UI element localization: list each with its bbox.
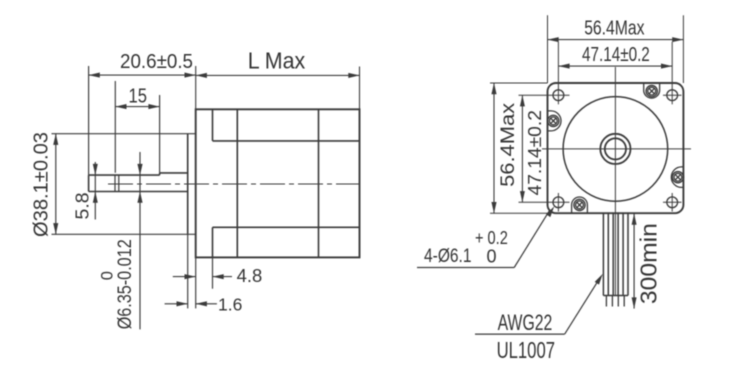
svg-text:0: 0 (99, 271, 117, 280)
svg-text:1.6: 1.6 (218, 294, 242, 314)
svg-text:UL1007: UL1007 (497, 337, 555, 363)
svg-text:56.4Max: 56.4Max (584, 17, 644, 39)
svg-text:Ø6.35-0.012: Ø6.35-0.012 (115, 239, 136, 329)
svg-text:Ø38.1±0.03: Ø38.1±0.03 (30, 132, 53, 237)
svg-text:20.6±0.5: 20.6±0.5 (120, 50, 193, 73)
svg-text:L Max: L Max (248, 47, 306, 73)
svg-text:5.8: 5.8 (72, 193, 93, 220)
svg-text:+ 0.2: + 0.2 (475, 228, 508, 248)
svg-text:4.8: 4.8 (237, 266, 263, 286)
svg-text:15: 15 (129, 86, 148, 108)
svg-text:56.4Max: 56.4Max (498, 102, 519, 187)
svg-text:AWG22: AWG22 (498, 310, 553, 335)
svg-text:300min: 300min (636, 223, 662, 304)
svg-text:0: 0 (487, 247, 497, 267)
svg-text:47.14±0.2: 47.14±0.2 (582, 44, 650, 66)
svg-text:47.14±0.2: 47.14±0.2 (524, 110, 545, 195)
svg-text:4-Ø6.1: 4-Ø6.1 (424, 245, 472, 267)
